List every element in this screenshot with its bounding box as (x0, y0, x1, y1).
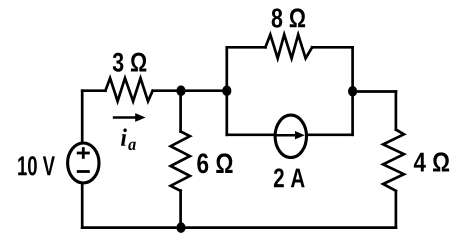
resistor R 6 ohm (171, 132, 190, 191)
wire node c to right branch corner (353, 90, 396, 93)
label 3 ohm (113, 53, 147, 72)
wire node a to node b (181, 89, 227, 92)
resistor R 8 ohm (265, 35, 312, 59)
label 10 V (18, 156, 55, 175)
current source arrow (277, 131, 305, 139)
wire top-left lead to 3-ohm resistor (82, 89, 105, 92)
node c junction dot (348, 86, 357, 97)
label 2 A (274, 168, 305, 187)
wire 8-ohm to loop top right corner (312, 46, 353, 49)
wire 6-ohm bottom lead (179, 191, 182, 228)
label i_a current name (121, 128, 136, 150)
resistor R 3 ohm (105, 78, 152, 101)
wire loop left vertical (225, 47, 228, 135)
node b junction dot (222, 85, 231, 96)
label 4 ohm (414, 152, 449, 171)
node d junction dot (bottom) (176, 222, 185, 233)
wire bottom rail (82, 226, 396, 229)
wire loop bottom left (to current source) (227, 133, 274, 136)
wire 4-ohm bottom lead (395, 191, 398, 228)
voltage source minus sign (77, 170, 90, 173)
wire loop right vertical (351, 47, 354, 135)
label 6 ohm (197, 153, 232, 173)
wire 6-ohm top lead (179, 91, 182, 132)
wire right branch vertical to 4-ohm (395, 92, 398, 130)
wire left rail bottom (source to bottom rail) (81, 185, 84, 228)
node a junction dot (176, 85, 185, 96)
current source I1 2A circle (275, 115, 306, 157)
wire left rail top (source to top-left corner) (81, 91, 84, 142)
wire 3-ohm to node a (153, 89, 181, 92)
voltage source V1 10V circle (68, 143, 99, 183)
wire loop bottom right (current source to right corner) (308, 133, 353, 136)
label 8 ohm (272, 8, 305, 27)
resistor R 4 ohm (383, 130, 404, 191)
voltage source plus sign (77, 147, 90, 159)
current arrow i_a (113, 113, 146, 122)
wire loop top lead to 8-ohm (227, 46, 266, 49)
